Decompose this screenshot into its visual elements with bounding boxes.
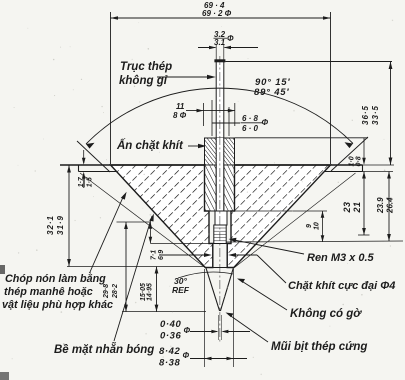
dim 7.1/6.9 [117, 222, 166, 260]
cone angle arc 90d15 / 89d45 [86, 77, 353, 149]
svg-text:29·8: 29·8 [103, 284, 110, 299]
svg-text:23.9: 23.9 [376, 197, 385, 214]
label Chop non lam bang ... [2, 192, 127, 311]
right dim 23.9/26.4 [376, 172, 395, 242]
svg-text:6 · 0: 6 · 0 [242, 124, 259, 133]
stud between sleeve and thread [215, 211, 227, 225]
svg-text:1·7: 1·7 [78, 176, 85, 187]
threaded stud [214, 225, 226, 244]
top overall diameter dimension 69.4/69.2 [111, 1, 331, 164]
svg-text:6 · 8: 6 · 8 [242, 114, 259, 123]
hub bore dim 6.8/6.0 [212, 100, 269, 136]
svg-text:Ấn chặt khít: Ấn chặt khít [116, 139, 184, 152]
tip dim 8.42/8.38 [159, 269, 247, 369]
sleeve through cone, steep hatch strips [205, 165, 235, 211]
svg-text:1·0: 1·0 [349, 156, 356, 166]
right dim 23/21 [342, 172, 370, 236]
leader from shaft top to right [225, 61, 392, 63]
hub top extension to right [235, 137, 368, 139]
sleeve bottom line and extension [205, 210, 235, 212]
shaft white through hub [217, 138, 224, 211]
rim top surface [60, 164, 205, 166]
scan smudges [0, 265, 5, 274]
rim extension lines to right dims [363, 164, 395, 166]
svg-text:Φ: Φ [184, 326, 191, 335]
dim 9/10 [306, 211, 324, 242]
svg-text:0·8: 0·8 [356, 156, 363, 166]
tip cone [206, 268, 234, 312]
svg-text:8·42: 8·42 [159, 346, 181, 357]
tip base flat [205, 267, 234, 269]
right dim 36.5/33.5 [361, 62, 392, 166]
thread bottom extension lines [151, 243, 214, 245]
phi4 arrows [159, 253, 257, 257]
svg-text:Trục thép: Trục thép [120, 61, 172, 73]
rim edge dim 1.7/1.5 [78, 150, 94, 188]
svg-text:0·36: 0·36 [160, 331, 182, 342]
cone silhouette lines behind section [80, 173, 205, 268]
right rim edge small dim [349, 138, 366, 167]
label An chat khit [116, 139, 207, 152]
svg-text:Φ: Φ [183, 351, 190, 360]
label Truc thep khong gi [119, 61, 216, 87]
dim 15.05/14.95 [140, 267, 158, 312]
svg-text:21: 21 [352, 201, 362, 213]
svg-text:89° 45′: 89° 45′ [254, 87, 289, 98]
tip base extension line [67, 266, 205, 268]
dim 29.8/28.2 [103, 222, 128, 312]
svg-text:Bề mặt nhẵn bóng: Bề mặt nhẵn bóng [54, 343, 154, 356]
hub dim 11 / 8phi [173, 102, 235, 126]
label Be mat nhan bong [54, 214, 154, 357]
cone section left wedge [111, 165, 213, 268]
svg-text:8 Φ: 8 Φ [173, 111, 187, 120]
svg-text:Chặt khít cực đại Φ4: Chặt khít cực đại Φ4 [288, 280, 395, 292]
svg-text:69 · 2 Φ: 69 · 2 Φ [202, 9, 232, 18]
svg-text:31·9: 31·9 [56, 215, 65, 235]
cone section right wedge [227, 165, 330, 268]
svg-text:7·1: 7·1 [151, 250, 158, 260]
30 deg REF arc [172, 272, 233, 295]
rim underside [79, 171, 117, 173]
svg-text:REF: REF [172, 285, 190, 295]
angle legs [77, 141, 110, 172]
svg-text:8·38: 8·38 [159, 358, 181, 369]
label Chat khit cuc dai phi4 [257, 255, 395, 292]
svg-text:26.4: 26.4 [386, 197, 395, 214]
svg-text:Ren M3 x 0.5: Ren M3 x 0.5 [307, 252, 375, 264]
center line [219, 56, 221, 343]
svg-text:vật liệu phù hợp khác: vật liệu phù hợp khác [2, 299, 113, 311]
svg-text:Chóp nón làm bằng: Chóp nón làm bằng [5, 272, 106, 285]
svg-text:32·1: 32·1 [46, 215, 55, 235]
hub block (press-fit collar) [205, 138, 235, 165]
svg-text:Không có gờ: Không có gờ [290, 308, 362, 320]
shaft (truc thep) [214, 59, 225, 211]
shaft diameter dim 3.2/3.1 [198, 30, 258, 60]
label Khong co go [237, 279, 362, 321]
svg-text:33·5: 33·5 [371, 105, 380, 125]
label Mui bit thep cung [226, 313, 368, 354]
svg-text:1·5: 1·5 [86, 177, 93, 187]
svg-text:Φ: Φ [262, 118, 269, 127]
svg-text:9: 9 [306, 224, 313, 228]
flange outer edges [78, 165, 80, 172]
svg-text:36·5: 36·5 [361, 105, 370, 125]
svg-text:thép manhê hoặc: thép manhê hoặc [4, 286, 93, 298]
label Ren M3 x 0.5 [229, 238, 375, 264]
tip level extension line [122, 311, 206, 313]
cylinder (phi 4 section) [213, 244, 227, 268]
svg-text:14·95: 14·95 [147, 283, 154, 301]
left overall height dim 32.1/31.9 [46, 165, 71, 267]
svg-text:11: 11 [176, 102, 185, 111]
svg-text:Φ: Φ [227, 34, 234, 43]
svg-text:23: 23 [342, 201, 352, 213]
svg-text:28·2: 28·2 [112, 284, 119, 299]
svg-text:Mũi bịt thép cứng: Mũi bịt thép cứng [271, 341, 367, 353]
svg-text:0·40: 0·40 [160, 319, 182, 330]
svg-text:10: 10 [314, 222, 321, 230]
tip dim 0.40/0.36 [160, 315, 250, 342]
